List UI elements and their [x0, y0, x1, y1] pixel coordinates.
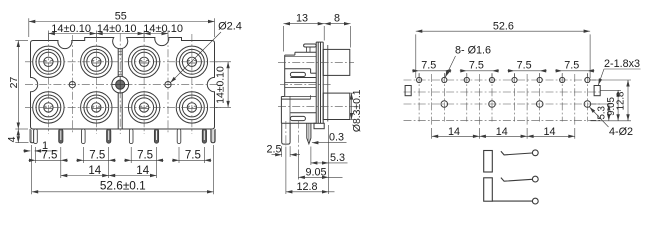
pin switch col4: [177, 129, 181, 144]
svg-text:8- Ø1.6: 8- Ø1.6: [455, 45, 491, 57]
pin signal col1: [59, 129, 63, 143]
hole M1: [69, 82, 75, 88]
right ground tab hatch: [211, 130, 213, 142]
svg-text:12.8: 12.8: [296, 181, 317, 193]
dimension dia 8.3 right: [350, 92, 353, 94]
svg-text:14: 14: [88, 165, 101, 177]
svg-text:52.6±0.1: 52.6±0.1: [100, 178, 146, 192]
flange plates: [316, 42, 328, 123]
dimension 5.3: [328, 125, 330, 194]
barrel row 1: [323, 49, 350, 75]
pin switch col2: [82, 129, 86, 144]
side mount leg: [282, 123, 290, 144]
svg-text:7.5: 7.5: [185, 150, 201, 162]
pin signal col3: [154, 129, 158, 143]
svg-text:2.5: 2.5: [266, 144, 281, 156]
dimension 27 left: [15, 40, 28, 42]
jack A2: [81, 46, 112, 77]
svg-text:7.5: 7.5: [564, 60, 579, 72]
label 8-dia1.6 with leader: [445, 56, 455, 78]
label dia 2.4 with leader: [170, 32, 221, 83]
schematic ground lead: [492, 200, 532, 202]
barrel row 2: [323, 93, 350, 119]
row 1 centerline: [25, 61, 221, 63]
mid hole centerlines: [71, 35, 73, 134]
right ground tab: [211, 129, 215, 143]
svg-text:12.8: 12.8: [616, 92, 627, 111]
hole 1.6 #6: [537, 77, 542, 82]
column centerlines: [47, 34, 49, 134]
svg-text:14: 14: [136, 165, 149, 177]
right slot 1.8x3: [594, 86, 600, 96]
svg-text:2-1.8x3: 2-1.8x3: [604, 58, 640, 70]
hole 1.6 #3: [464, 77, 469, 82]
svg-text:52.6: 52.6: [493, 21, 514, 33]
svg-text:7.5: 7.5: [41, 150, 57, 162]
side switch contact tab upper: [290, 72, 305, 76]
left ground tab hatch: [30, 130, 32, 142]
dimension 12.8: [285, 147, 287, 194]
svg-text:4: 4: [6, 136, 18, 142]
side centerline row1: [278, 61, 354, 63]
dimensions 14 x3 right view: [431, 128, 433, 139]
jack B3: [128, 92, 159, 123]
dimension 12.8 right view: [592, 79, 632, 81]
dimension 52.6 bottom: [31, 145, 33, 194]
left slot 1.8x3: [405, 86, 411, 96]
svg-text:14±0.10: 14±0.10: [97, 23, 137, 35]
svg-text:7.5: 7.5: [517, 60, 532, 72]
hole 2.0 #1: [441, 101, 448, 108]
svg-text:55: 55: [115, 11, 127, 23]
side centerline row2: [278, 105, 354, 107]
dimension 9.05: [297, 150, 299, 180]
pin signal col4: [202, 129, 206, 143]
schematic ground bar upper: [484, 151, 493, 173]
pcb hole column centerlines: [419, 74, 587, 126]
dimension 5.3 right view: [591, 120, 632, 122]
svg-text:7.5: 7.5: [469, 60, 484, 72]
dimension 14 right vertical: [216, 61, 232, 63]
pin switch col3: [129, 129, 133, 144]
label 2-1.8x3 with leader: [604, 68, 641, 70]
dimension 14 x3 top: [48, 33, 168, 35]
flange foot: [314, 123, 324, 128]
side top switch pin: [304, 44, 317, 47]
jack B2: [81, 92, 112, 123]
svg-text:14±0.10: 14±0.10: [216, 66, 227, 104]
svg-text:5.3: 5.3: [330, 152, 345, 164]
dimension 52.6 top right view: [415, 34, 417, 78]
side signal pin: [307, 123, 311, 144]
dimensions 7.5 x4 bottom: [35, 147, 37, 163]
dimension 4 left tab height: [15, 142, 28, 144]
side switch contact tab lower: [290, 116, 305, 120]
hole 2.0 #2: [489, 101, 496, 108]
hole M3 dia 2.4: [165, 82, 171, 88]
dimensions 7.5 x4 right view: [418, 73, 420, 77]
dimension 1 tab width: [23, 150, 30, 152]
row 2 centerline: [25, 106, 221, 108]
svg-text:13: 13: [296, 13, 308, 25]
pcb band horizontal centerlines: [404, 80, 602, 120]
pin signal col2: [107, 129, 111, 143]
jack A3: [128, 46, 159, 77]
label 4-dia2 with leader: [590, 107, 609, 127]
svg-text:8: 8: [334, 13, 340, 25]
schematic switch contact middle: [501, 176, 538, 182]
svg-text:14±0.10: 14±0.10: [51, 23, 91, 35]
hole M2 center: [112, 76, 129, 93]
dimension 2.5 leg: [281, 146, 283, 157]
svg-text:7.5: 7.5: [137, 150, 153, 162]
side centerline middle: [280, 84, 332, 86]
dimension 13 top: [283, 26, 285, 52]
svg-text:14: 14: [496, 126, 508, 138]
jack A4: [176, 46, 207, 77]
hole 1.6 #1: [417, 77, 422, 82]
left ground tab: [30, 129, 34, 143]
svg-text:14: 14: [448, 126, 460, 138]
pin switch col1: [34, 129, 38, 144]
svg-text:Ø8.3±0.1: Ø8.3±0.1: [352, 89, 363, 132]
front view body outline: [31, 38, 215, 130]
dimension 0.3 pin: [312, 142, 347, 144]
dimension 8 top: [324, 23, 350, 25]
svg-text:4-Ø2: 4-Ø2: [609, 126, 633, 138]
svg-text:7.5: 7.5: [421, 60, 436, 72]
hole 1.6 #8: [585, 77, 590, 82]
hole 1.6 #5: [512, 77, 517, 82]
svg-text:7.5: 7.5: [89, 150, 105, 162]
hole 2.0 #4: [584, 101, 591, 108]
dimensions 14 x2 lower: [60, 163, 62, 178]
side view body block: [281, 52, 316, 123]
hole 2.0 #3: [536, 101, 543, 108]
svg-text:Ø2.4: Ø2.4: [218, 20, 242, 32]
svg-text:27: 27: [8, 77, 20, 89]
hole 1.6 #4: [489, 77, 494, 82]
body seam slot: [117, 49, 119, 77]
svg-text:14: 14: [543, 126, 555, 138]
jack B1: [33, 92, 64, 123]
middle horizontal centerline: [25, 84, 221, 86]
svg-text:9.05: 9.05: [305, 166, 326, 178]
svg-text:14±0.10: 14±0.10: [143, 23, 183, 35]
jack B4: [176, 92, 207, 123]
hole 1.6 #2: [442, 77, 447, 82]
dimension 9.05 right view: [601, 89, 622, 91]
side leg centerline: [297, 121, 299, 148]
svg-text:0.3: 0.3: [329, 132, 344, 144]
dimension 55 top: [28, 18, 30, 37]
schematic switch contact top: [501, 150, 538, 156]
hole 1.6 #7: [560, 77, 565, 82]
jack A1: [33, 46, 64, 77]
schematic ground bar lower: [484, 178, 493, 201]
